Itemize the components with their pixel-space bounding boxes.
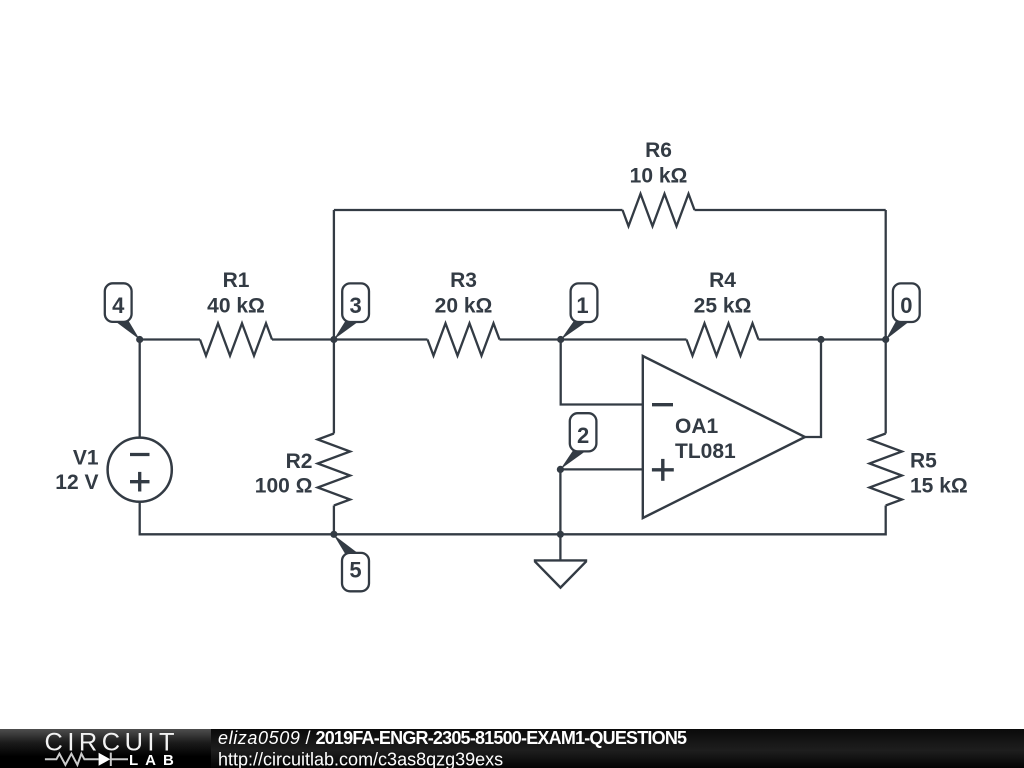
wire: right vertical from top rail down to node 0 — [885, 210, 887, 340]
node 0 pointer — [886, 321, 911, 340]
node 3 pointer — [334, 321, 360, 340]
node 4 junction — [136, 336, 143, 343]
svg-text:R4: R4 — [709, 269, 736, 292]
svg-text:5: 5 — [349, 558, 361, 583]
node 2 box — [570, 413, 597, 451]
node 2 pointer — [560, 450, 587, 469]
svg-text:R2: R2 — [286, 450, 313, 473]
V1 minus sign — [130, 453, 150, 456]
node 1 box — [571, 283, 598, 322]
wire: node 3 vertical up to feedback rail — [333, 210, 335, 340]
wire: node 4 down to V1 top — [139, 340, 141, 438]
svg-text:R1: R1 — [223, 269, 250, 292]
svg-text:R5: R5 — [910, 450, 937, 473]
node label boxes — [105, 283, 920, 591]
op-amp inverting input minus symbol — [652, 403, 673, 406]
svg-text:40 kΩ: 40 kΩ — [207, 294, 265, 317]
node 3 junction — [330, 336, 337, 343]
footer logo background — [0, 729, 211, 768]
svg-text:TL081: TL081 — [675, 440, 736, 463]
svg-text:0: 0 — [900, 293, 912, 318]
ground symbol — [534, 560, 587, 587]
footer black bar — [0, 729, 1024, 768]
wire: op-amp output to feedback junction — [805, 340, 821, 438]
logo diode triangle — [99, 753, 111, 766]
wire: top rail right segment — [695, 209, 886, 211]
node 0 box — [893, 283, 920, 322]
op-amp OA1 triangle body — [643, 356, 805, 518]
resistor R3 20k zigzag — [428, 323, 500, 355]
svg-text:R3: R3 — [450, 269, 477, 292]
wire: node 0 down to R5 — [885, 340, 887, 434]
V1 plus sign — [130, 472, 150, 492]
wire: V1 bottom to bottom rail — [140, 502, 334, 535]
op-amp non-inverting input plus symbol — [652, 459, 674, 481]
svg-text:3: 3 — [349, 293, 361, 318]
node 1 pointer — [561, 321, 588, 340]
wire: node 3 to R3 — [334, 338, 428, 340]
svg-text:2: 2 — [577, 423, 589, 448]
svg-text:100 Ω: 100 Ω — [255, 475, 313, 498]
svg-text:1: 1 — [576, 293, 588, 318]
node 0 junction — [882, 336, 889, 343]
svg-text:http://circuitlab.com/c3as8qzg: http://circuitlab.com/c3as8qzg39exs — [218, 749, 503, 768]
svg-text:OA1: OA1 — [675, 415, 719, 438]
wire: R5 bottom lead to bottom rail — [560, 506, 885, 535]
svg-text:V1: V1 — [73, 447, 99, 470]
resistor R2 100ohm zigzag (vertical) — [318, 434, 350, 506]
wire: R3 right lead to node 1 — [500, 338, 561, 340]
svg-text:R6: R6 — [645, 139, 672, 162]
wire: top rail left segment to R6 — [334, 209, 623, 211]
node 2 junction — [557, 466, 564, 473]
logo resistor-diode glyph — [45, 753, 128, 766]
output feedback junction — [817, 336, 824, 343]
wire: R4 right lead to output junction and node 0 — [759, 338, 886, 340]
svg-text:15 kΩ: 15 kΩ — [910, 475, 968, 498]
node 4 pointer — [115, 321, 140, 340]
voltage source V1 circle — [108, 438, 172, 502]
node 4 box — [105, 283, 132, 322]
wire: bottom rail between node 5 and ground junction — [334, 533, 561, 535]
node 3 box — [342, 283, 369, 322]
junction dots — [136, 336, 889, 538]
svg-text:10 kΩ: 10 kΩ — [630, 164, 688, 187]
svg-text:LAB: LAB — [129, 752, 181, 768]
svg-text:20 kΩ: 20 kΩ — [435, 294, 493, 317]
svg-text:eliza0509 / 2019FA-ENGR-2305-8: eliza0509 / 2019FA-ENGR-2305-81500-EXAM1… — [218, 728, 687, 748]
wire: node 2 to op-amp non-inverting input — [560, 468, 642, 470]
resistor R6 10k zigzag — [623, 194, 695, 226]
wire: R1 right lead to node 3 — [272, 338, 334, 340]
svg-text:25 kΩ: 25 kΩ — [694, 294, 752, 317]
svg-text:12 V: 12 V — [55, 471, 98, 494]
node 1 junction — [557, 336, 564, 343]
wire: R2 bottom lead to bottom rail junction node 5 — [333, 506, 335, 535]
ground stub wire — [559, 534, 561, 560]
wire: node 1 vertical down and into op-amp inverting input — [561, 340, 643, 405]
node 5 junction — [330, 531, 337, 538]
svg-text:4: 4 — [112, 293, 125, 318]
wire: node 2 down to bottom rail — [559, 469, 561, 534]
resistor R5 15k zigzag (vertical) — [870, 434, 902, 506]
wire: node 3 down to R2 — [333, 340, 335, 434]
schematic text labels — [55, 139, 967, 583]
resistor R1 40k zigzag — [200, 323, 272, 355]
resistor R4 25k zigzag — [687, 323, 759, 355]
ground junction — [557, 531, 564, 538]
wire: node 1 to R4 — [561, 338, 687, 340]
wire: main horizontal net from node 4 to R1 — [140, 338, 200, 340]
node 5 pointer — [334, 535, 360, 555]
node 5 box — [342, 553, 369, 591]
